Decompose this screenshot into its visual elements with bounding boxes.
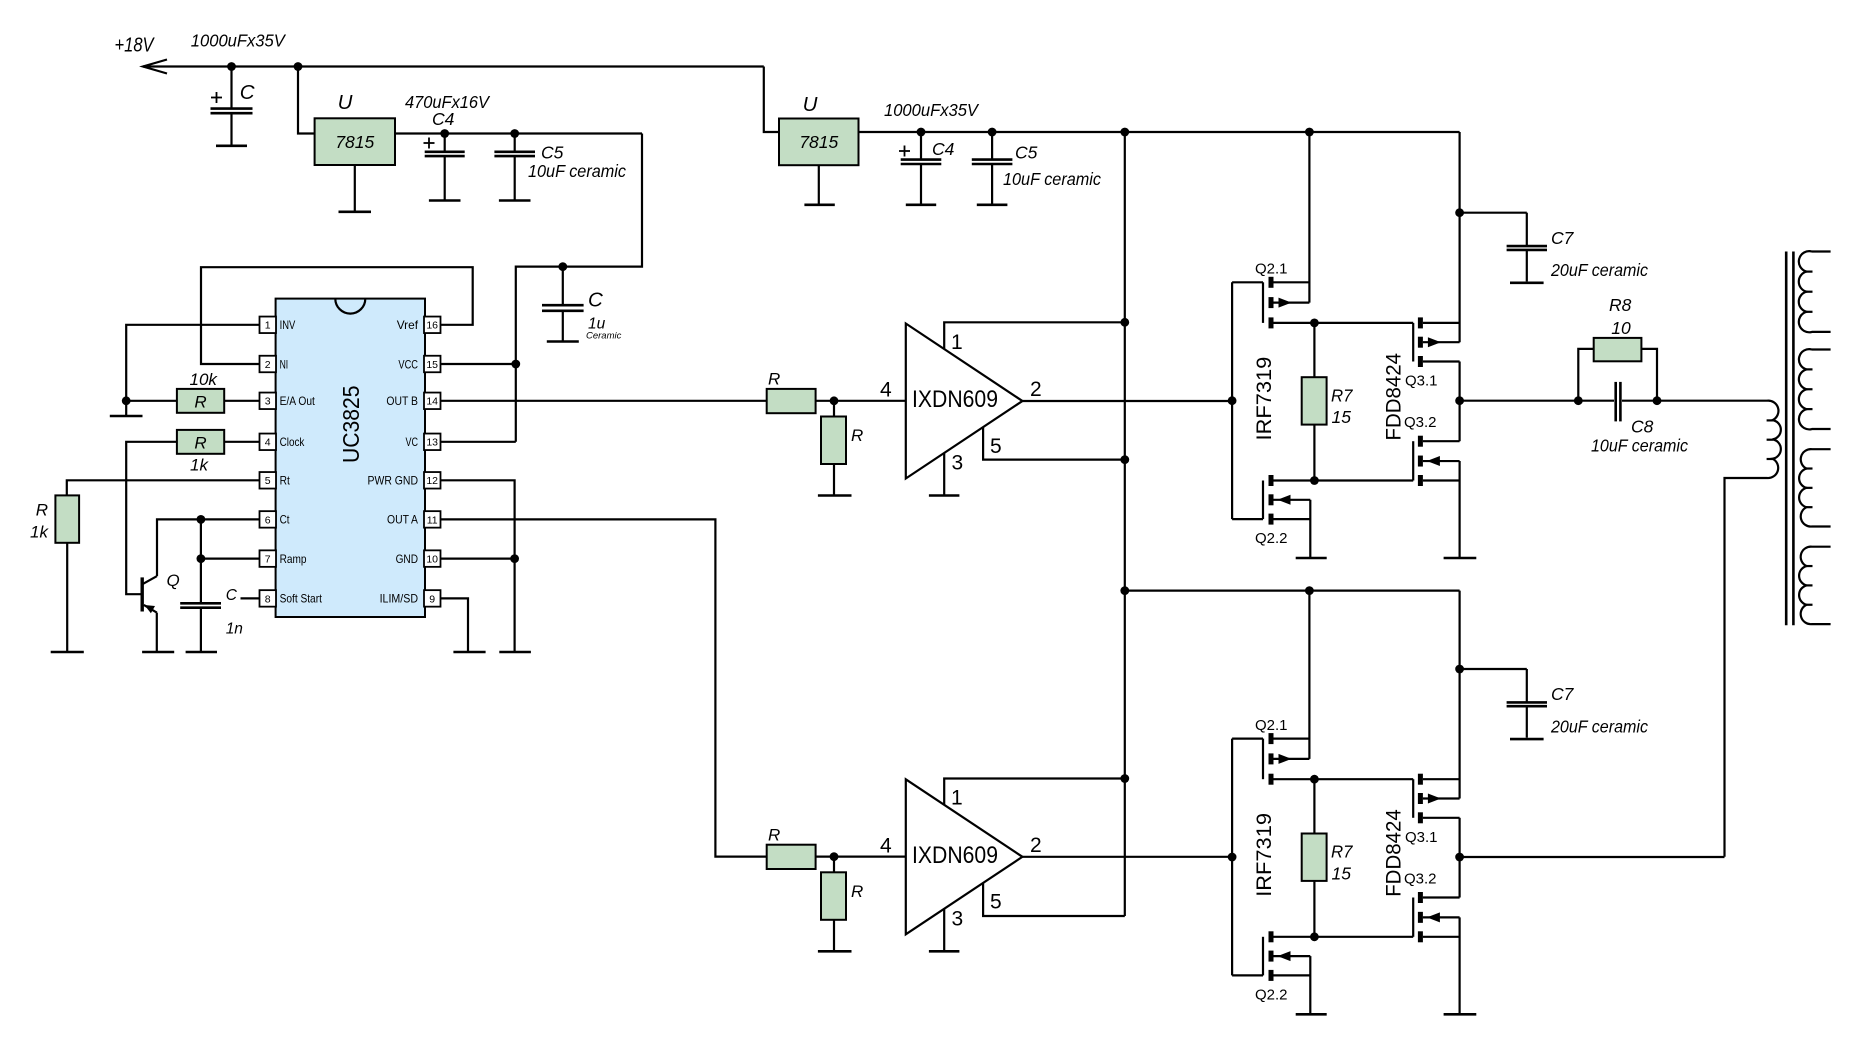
transformer T1 secondary winding 4 [1799,547,1831,625]
svg-text:R7: R7 [1331,842,1354,862]
pin 6 Ct [260,511,277,528]
resistor R 10k [126,400,177,402]
svg-text:C: C [588,289,603,312]
wire pin9 ILIM/SD to ground [441,598,469,651]
wire Q3.1 drain rail lower [1458,669,1460,799]
svg-text:5: 5 [990,435,1002,458]
svg-text:Ramp: Ramp [280,552,307,566]
transistor Q2.2 n-MOSFET lower [1232,974,1263,976]
transistor Q3.1 p-MOSFET FDD8424 [1412,323,1414,362]
wire Q2.1 drain rail [1308,132,1310,303]
pin 13 VC [424,434,441,451]
ground Q2.2 source [1309,500,1311,557]
svg-text:20uF ceramic: 20uF ceramic [1550,716,1648,736]
wire Q2.1 source to Q3.1 gate lower [1314,778,1413,780]
svg-text:C8: C8 [1631,417,1654,437]
wire VCC feed from rail [516,134,642,442]
svg-text:2: 2 [1030,378,1042,401]
wire pin2 lower driver output [1022,856,1232,858]
wire pin3 upper driver ground [943,453,945,495]
svg-text:3: 3 [952,907,964,930]
svg-text:7815: 7815 [335,132,374,152]
wire pin12 PWR GND to ground [441,480,515,651]
wire gate rail IRF7319 [1231,282,1233,519]
wire pin10 GND [441,557,515,559]
svg-text:OUT A: OUT A [387,513,418,527]
svg-text:Ct: Ct [280,513,290,527]
node junction dot C4 [440,129,449,138]
svg-text:3: 3 [952,452,964,475]
capacitor C 1u ceramic [562,267,564,306]
svg-text:GND: GND [396,552,419,566]
node junction INV/R junction [122,396,131,405]
node junction C8 right [1653,396,1662,405]
wire gate rail IRF7319 lower [1231,739,1233,976]
svg-text:1: 1 [951,331,963,354]
svg-text:6: 6 [265,514,271,526]
wire 7815 #1 output rail [395,132,642,134]
wire +18V to 7815 #2 [764,67,779,133]
svg-text:11: 11 [427,514,438,526]
node junction C7 upper [1455,208,1464,217]
svg-text:PWR GND: PWR GND [368,474,419,488]
transistor Q2.2 n-MOSFET [1232,518,1263,520]
pin 2 NI [260,356,277,373]
svg-text:Ceramic: Ceramic [586,331,622,342]
svg-text:R: R [36,501,48,520]
node junction pin5 rail [1120,455,1129,464]
svg-text:16: 16 [426,320,438,332]
svg-text:Q3.2: Q3.2 [1404,870,1437,887]
node junction C8 left [1574,396,1583,405]
svg-text:R: R [194,433,206,452]
pin 3 E/A Out [260,393,277,410]
svg-text:2: 2 [1030,834,1042,857]
transistor Q3.2 n-MOSFET FDD8424 lower [1412,898,1414,937]
wire pin15 VCC [441,363,516,365]
node junction output lower [1455,853,1464,862]
op-amp U3 IXDN609 driver triangle lower [906,779,1023,934]
node junction dot C1 [227,62,236,71]
svg-text:14: 14 [426,396,438,408]
svg-text:9: 9 [429,593,435,605]
wire Q3.1 source to output [1458,362,1460,401]
ground Q3.2 source [1458,461,1460,557]
svg-text:5: 5 [990,891,1002,914]
resistor R7 15 [1313,323,1315,377]
op-amp U1 UC3825 PWM controller body [276,299,425,617]
ground Q3.2 source lower [1458,917,1460,1013]
node junction dot VCC rail driver [1120,128,1129,137]
pin 8 Soft Start [260,590,277,607]
svg-text:15: 15 [1332,407,1352,427]
svg-text:+18V: +18V [115,34,156,57]
svg-text:OUT B: OUT B [386,394,418,408]
svg-text:20uF ceramic: 20uF ceramic [1550,260,1648,280]
node junction dot 7815 input [294,62,303,71]
pin 4 Clock [260,434,277,451]
svg-text:R: R [768,370,780,389]
svg-text:1: 1 [951,787,963,810]
svg-text:1k: 1k [30,523,49,542]
pin 1 INV [260,317,277,334]
node junction dot C4 #2 [917,128,926,137]
svg-text:8: 8 [265,593,271,605]
svg-text:U: U [803,93,818,116]
ground 7815 #2 [818,165,820,204]
capacitor C4 electrolytic #2 [920,132,922,160]
pin 9 ILIM/SD [424,590,441,607]
wire rail corner to C7 node lower [1458,591,1460,669]
pin 7 Ramp [260,550,277,567]
capacitor C7 20uF ceramic upper [1460,212,1527,214]
svg-text:12: 12 [426,475,438,487]
svg-text:10k: 10k [190,370,219,389]
svg-text:7815: 7815 [799,132,838,152]
wire pin11 OUT A to lower driver [441,519,767,856]
wire 7815 input [298,67,315,134]
svg-text:VC: VC [406,435,419,449]
svg-text:3: 3 [265,396,271,408]
pin 11 OUT A [424,511,441,528]
svg-text:10uF ceramic: 10uF ceramic [1003,169,1101,189]
svg-text:U: U [338,91,353,114]
svg-text:1000uFx35V: 1000uFx35V [191,30,287,50]
svg-text:C5: C5 [541,143,564,163]
node junction pin1 rail [1120,318,1129,327]
svg-text:7: 7 [265,554,271,566]
resistor R lower gate series [767,845,816,869]
resistor R7 15 lower [1313,779,1315,833]
node junction pin1 rail lower [1120,774,1129,783]
transformer T1 primary winding [1657,401,1781,857]
transistor Q2.1 p-MOSFET [1232,281,1263,283]
transformer T1 secondary winding 2 [1799,349,1831,429]
node junction lower R divider [816,855,906,857]
wire lower output to transformer [1460,856,1725,858]
svg-text:R8: R8 [1609,295,1632,315]
svg-text:Q2.1: Q2.1 [1255,717,1288,734]
svg-text:E/A Out: E/A Out [280,394,316,408]
ground R 1k [66,543,68,651]
svg-text:R: R [768,825,780,844]
wire pin3 lower driver ground [943,908,945,950]
svg-text:IXDN609: IXDN609 [912,842,998,869]
wire pin14 OUT B [441,400,767,402]
svg-text:C4: C4 [932,139,955,159]
transformer T1 secondary winding 3 [1799,449,1831,526]
ground 7815 #1 [354,165,356,211]
wire pin1 upper driver [944,322,1125,349]
pin 14 OUT B [424,393,441,410]
wire pin8 stub [241,597,260,599]
svg-text:1n: 1n [226,621,243,638]
svg-text:10: 10 [1611,318,1631,338]
wire rail corner to C7 node [1458,132,1460,213]
node junction Q2.1 source / R7 lower [1310,775,1319,784]
node junction Q2.1 source / R7 [1310,319,1319,328]
transistor Q PNP [140,577,143,611]
resistor R lower pulldown [833,857,835,873]
node junction dot MOSFET drain rail [1305,128,1314,137]
svg-text:5: 5 [265,475,271,487]
node junction dot C5 [510,129,519,138]
ground lower pulldown R [833,920,835,951]
wire clock resistor to transistor base [126,442,177,594]
node junction Ramp [197,554,206,563]
svg-text:10: 10 [426,554,438,566]
ground upper pulldown R [833,464,835,495]
capacitor C8 10uF ceramic [1614,382,1617,422]
svg-text:Clock: Clock [280,435,306,449]
capacitor C5 ceramic #2 [991,132,993,160]
svg-text:Q3.1: Q3.1 [1405,829,1438,846]
svg-text:4: 4 [265,437,271,449]
capacitor C 1n [180,602,221,605]
regulator U 7815 #2 [779,119,859,166]
svg-text:C7: C7 [1551,228,1575,248]
node junction GND [510,554,519,563]
svg-text:Q3.1: Q3.1 [1405,373,1438,390]
svg-text:C7: C7 [1551,684,1575,704]
transformer T1 secondary winding 1 [1799,251,1831,332]
capacitor C7 20uF ceramic lower [1460,668,1527,670]
svg-text:Q2.1: Q2.1 [1255,261,1288,278]
wire Ct-Ramp-cap vertical [200,519,202,603]
svg-text:13: 13 [426,437,438,449]
transistor Q2.1 p-MOSFET lower [1232,737,1263,739]
wire pin5 upper driver [983,427,1125,460]
svg-text:UC3825: UC3825 [338,386,364,464]
svg-text:Vref: Vref [397,318,419,332]
op-amp U2 IXDN609 driver triangle [906,324,1023,479]
node junction C7 lower [1455,665,1464,674]
wire driver VCC rail vertical [1124,132,1126,916]
node junction dot 1u cap [558,262,567,271]
wire pin5 Rt [67,480,260,495]
capacitor C4 electrolytic [444,134,446,152]
wire pin2 NI to pin16 Vref loop [201,267,473,364]
svg-text:2: 2 [265,359,271,371]
pin 16 Vref [424,317,441,334]
svg-text:IXDN609: IXDN609 [912,386,998,413]
wire pin6 Ct [157,519,260,576]
node junction rail lower drain [1305,586,1314,595]
svg-text:FDD8424: FDD8424 [1382,809,1405,897]
svg-text:10uF ceramic: 10uF ceramic [528,161,626,181]
wire pin7 Ramp [201,557,260,559]
resistor R 1k vertical [55,495,79,542]
wire Q3.1 source to output lower [1458,818,1460,857]
svg-text:Rt: Rt [280,474,291,488]
wire pin1 INV to ground node [126,325,259,401]
svg-text:1k: 1k [190,456,209,475]
capacitor C electrolytic 1000uFx35V [230,67,232,109]
svg-text:R: R [851,882,863,901]
pin 5 Rt [260,472,277,489]
node junction output [1455,396,1464,405]
svg-text:15: 15 [426,359,438,371]
node junction upper R divider [816,400,906,402]
node junction dot C5 #2 [988,128,997,137]
svg-text:R7: R7 [1331,385,1354,405]
node junction Ct [197,515,206,524]
regulator U 7815 [315,118,395,165]
svg-text:IRF7319: IRF7319 [1253,357,1276,441]
node junction dot VCC [511,360,520,369]
transistor Q3.2 n-MOSFET FDD8424 [1412,441,1414,480]
wire 7815 #2 output rail [859,131,1460,133]
svg-text:NI: NI [280,357,289,371]
wire Q2.1 source to Q3.1 gate [1314,322,1413,324]
svg-text:Q: Q [167,571,180,590]
svg-text:R: R [194,392,206,411]
svg-text:INV: INV [280,318,296,332]
svg-text:1000uFx35V: 1000uFx35V [884,100,980,120]
svg-text:4: 4 [880,834,892,857]
resistor R 1k clock [177,430,224,454]
node junction R7 bottom / Q2.2 drain lower [1310,932,1319,941]
wire Q3.1 drain rail [1458,213,1460,343]
capacitor C5 ceramic [514,134,516,152]
wire pin2 upper driver output [1022,400,1232,402]
ground INV node [125,401,127,415]
wire output node to R8/C8 [1460,400,1579,402]
pin 15 VCC [424,356,441,373]
svg-text:VCC: VCC [398,357,418,371]
svg-text:FDD8424: FDD8424 [1382,353,1405,441]
pin 10 GND [424,550,441,567]
svg-text:Q2.2: Q2.2 [1255,986,1288,1003]
svg-text:C: C [240,81,255,104]
svg-text:1: 1 [265,320,271,332]
svg-text:C5: C5 [1015,143,1038,163]
transformer T1 core [1785,252,1788,626]
svg-text:Soft Start: Soft Start [280,592,323,606]
svg-text:15: 15 [1332,864,1352,884]
resistor R8 10 [1578,349,1593,401]
svg-text:Q2.2: Q2.2 [1255,530,1288,547]
wire lower drain supply rail [1125,589,1460,591]
svg-text:C: C [226,587,238,604]
pin 12 PWR GND [424,472,441,489]
node junction gate rail [1228,396,1237,405]
wire pin5 lower driver [983,883,1125,916]
resistor R upper gate series [767,389,816,413]
wire Q2.1 drain rail lower [1308,591,1310,759]
svg-text:ILIM/SD: ILIM/SD [380,592,419,606]
node junction rail lower left [1120,586,1129,595]
svg-text:IRF7319: IRF7319 [1253,813,1276,897]
wire +18V rail with arrow [143,65,764,67]
svg-text:R: R [851,426,863,445]
svg-text:4: 4 [880,379,892,402]
svg-text:10uF ceramic: 10uF ceramic [1591,436,1688,456]
node junction R7 bottom / Q2.2 drain [1310,476,1319,485]
wire pin1 lower driver [944,779,1125,805]
wire pin13 VC [441,441,516,443]
svg-text:Q3.2: Q3.2 [1404,414,1437,431]
ground Q2.2 source lower [1309,956,1311,1013]
resistor R upper pulldown [833,401,835,417]
svg-text:C4: C4 [432,109,455,129]
transistor Q3.1 p-MOSFET FDD8424 lower [1412,779,1414,818]
node junction gate rail lower [1228,853,1237,862]
